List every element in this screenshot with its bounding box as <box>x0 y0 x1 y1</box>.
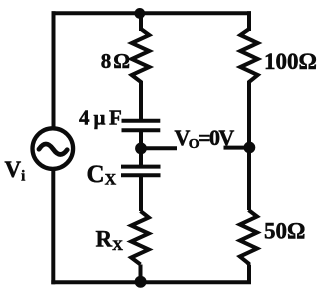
resistor R 100ohm zigzag <box>240 29 257 84</box>
wire output node left segment (middle node toward Vo label) <box>141 146 177 150</box>
capacitor 4uF top plate <box>124 119 159 123</box>
svg-text:Vi: Vi <box>5 157 26 185</box>
wire middle branch CX to RX <box>139 175 143 211</box>
node junction middle (Vo node on middle branch) <box>135 143 147 155</box>
wire bottom from left branch to right branch <box>53 280 249 284</box>
wire left side upper (top wire down to source Vi) <box>52 13 56 127</box>
resistor R 50ohm zigzag <box>240 210 257 265</box>
wire top from source branch to right branch <box>54 11 250 15</box>
svg-text:RX: RX <box>96 226 124 254</box>
wire middle branch stub below top junction <box>139 13 143 29</box>
source Vi circle <box>33 128 74 169</box>
wire right branch 50ohm to bottom wire <box>247 265 251 282</box>
svg-text:100Ω: 100Ω <box>264 49 317 74</box>
svg-text:VO=0V: VO=0V <box>175 125 235 152</box>
wire left side lower (source Vi down to bottom wire) <box>51 170 55 282</box>
svg-text:4μF: 4μF <box>79 105 122 129</box>
wire middle branch 8ohm to 4uF capacitor <box>139 84 143 121</box>
node junction bottom (middle branch and bottom wire) <box>135 276 147 288</box>
resistor RX zigzag <box>131 211 149 265</box>
capacitor CX top plate <box>123 165 159 169</box>
resistor R 8ohm zigzag <box>132 29 150 84</box>
wire middle branch between capacitors (node Vo) <box>139 130 143 166</box>
wire right branch 100ohm to 50ohm <box>247 84 251 210</box>
svg-text:CX: CX <box>87 161 117 189</box>
wire output node right segment (Vo label to right branch) <box>224 146 250 150</box>
wire right branch stub below top wire <box>247 13 251 29</box>
source Vi sine wave <box>39 144 67 154</box>
wire middle branch RX to bottom wire <box>139 265 143 283</box>
svg-text:8Ω: 8Ω <box>101 49 132 73</box>
node junction right (Vo wire on right branch) <box>244 142 256 154</box>
capacitor 4uF bottom plate <box>124 128 159 132</box>
capacitor CX bottom plate <box>123 173 159 177</box>
node junction top (middle branch and top wire) <box>134 8 145 19</box>
svg-text:50Ω: 50Ω <box>264 219 305 244</box>
